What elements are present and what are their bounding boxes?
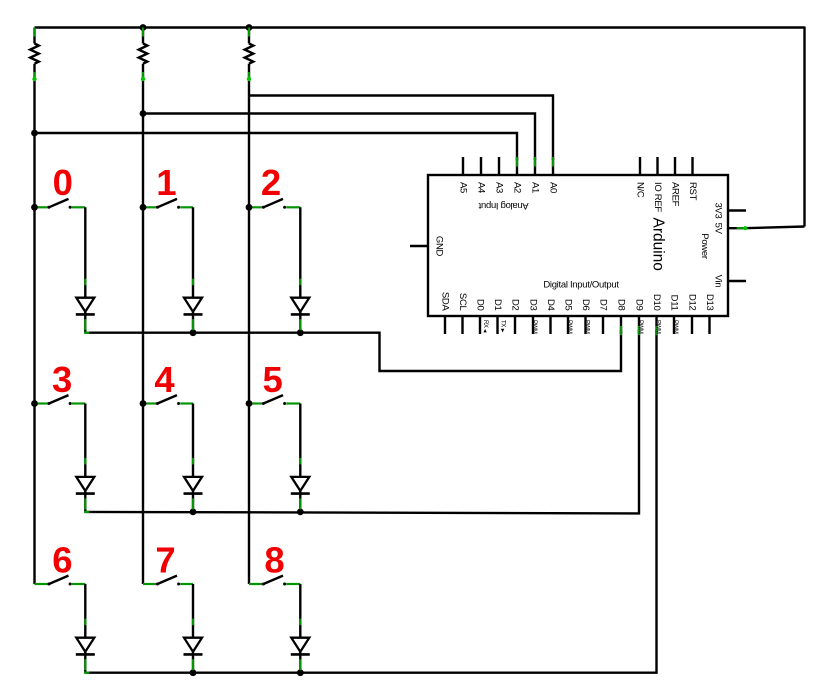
wire column 3 upper xyxy=(248,28,250,44)
pin D11 (bottom) xyxy=(669,295,680,334)
junction row1 col2 xyxy=(190,509,197,516)
pin SCL (bottom) xyxy=(457,293,468,334)
junction col2/A1 wire xyxy=(140,110,147,117)
wire top 5V bus xyxy=(35,27,805,231)
pin A2 (top) xyxy=(512,157,523,193)
wire col1 to pin A2 xyxy=(35,133,518,160)
svg-text:D1: D1 xyxy=(492,299,503,311)
svg-text:PWM: PWM xyxy=(637,320,643,334)
svg-text:D10: D10 xyxy=(651,294,662,311)
svg-text:AREF: AREF xyxy=(670,182,681,207)
diode D6 xyxy=(291,477,310,512)
svg-text:3: 3 xyxy=(52,359,72,400)
wire switch S7 to diode xyxy=(192,584,194,638)
switch S1 (button 1) xyxy=(143,199,193,209)
svg-text:RX: RX xyxy=(482,320,488,328)
Arduino U1 body xyxy=(428,175,728,316)
svg-text:D9: D9 xyxy=(634,299,645,311)
pin IO REF (top) xyxy=(652,157,663,212)
pin D13 (bottom) xyxy=(704,294,715,334)
svg-text:TX: TX xyxy=(500,320,506,327)
label button number 6 xyxy=(52,540,72,581)
wire switch S0 to diode xyxy=(84,207,86,297)
svg-text:RST: RST xyxy=(687,182,698,201)
wire switch S6 to diode xyxy=(84,584,86,638)
pin A1 (top) xyxy=(530,157,541,193)
wire column 2 upper xyxy=(142,28,144,44)
wire row0 bus to pin D8 xyxy=(85,330,621,371)
svg-text:0: 0 xyxy=(53,162,73,203)
switch S8 (button 8) xyxy=(249,576,300,586)
wire column 1 lower xyxy=(32,64,36,584)
svg-text:4: 4 xyxy=(154,359,175,400)
label button number 2 xyxy=(261,162,281,203)
svg-text:SDA: SDA xyxy=(440,292,451,312)
switch S7 (button 7) xyxy=(143,576,193,586)
label Arduino xyxy=(650,218,667,271)
pin D5 (bottom) xyxy=(563,299,574,334)
svg-text:Vin: Vin xyxy=(712,275,723,288)
wire column 1 upper xyxy=(33,28,35,44)
label button number 8 xyxy=(264,540,284,581)
pin GND (left) xyxy=(410,236,445,257)
svg-text:A5: A5 xyxy=(458,182,469,193)
svg-text:Analog Input: Analog Input xyxy=(478,200,528,211)
resistor R1 xyxy=(30,44,39,64)
svg-text:A1: A1 xyxy=(530,182,541,193)
wire col3 to pin A0 xyxy=(249,96,553,161)
pin AREF (top) xyxy=(670,157,681,207)
wire switch S4 to diode xyxy=(192,404,194,477)
svg-text:A2: A2 xyxy=(512,182,523,193)
junction col1/A2 wire xyxy=(31,130,38,137)
pin 5V (right) xyxy=(712,223,723,235)
junction column 2 row 1 xyxy=(140,400,147,407)
diode D8 xyxy=(184,638,203,673)
svg-text:2: 2 xyxy=(261,162,281,203)
switch S2 (button 2) xyxy=(249,199,300,209)
wire switch S8 to diode xyxy=(299,584,301,638)
svg-text:D12: D12 xyxy=(687,294,698,311)
svg-text:7: 7 xyxy=(155,540,175,581)
svg-text:D0: D0 xyxy=(475,299,486,311)
label button number 3 xyxy=(52,359,72,400)
svg-text:A0: A0 xyxy=(548,182,559,193)
svg-text:D6: D6 xyxy=(580,299,591,311)
wire row1 bus to pin D9 xyxy=(85,330,639,513)
label button number 5 xyxy=(263,359,283,400)
wire switch S3 to diode xyxy=(84,404,86,477)
pin D9 (bottom) xyxy=(634,299,645,335)
junction column 1 row 0 xyxy=(31,204,38,211)
wire switch S1 to diode xyxy=(192,207,194,297)
wire switch S2 to diode xyxy=(299,207,301,297)
svg-text:A4: A4 xyxy=(476,182,487,193)
diode D3 xyxy=(291,298,310,333)
pin D12 (bottom) xyxy=(687,294,698,334)
junction row0 col2 xyxy=(190,329,197,336)
pin SDA (bottom) xyxy=(440,292,451,334)
wire row2 bus to pin D10 xyxy=(85,330,656,673)
label button number 4 xyxy=(154,359,175,400)
junction column 3 row 0 xyxy=(246,204,253,211)
svg-text:N/C: N/C xyxy=(635,182,646,198)
pin A4 (top) xyxy=(476,157,487,193)
label button number 0 xyxy=(53,162,73,203)
resistor R3 xyxy=(245,44,254,64)
pin D7 (bottom) xyxy=(598,299,609,334)
svg-text:D4: D4 xyxy=(545,299,556,311)
svg-text:D8: D8 xyxy=(616,299,627,311)
svg-text:Power: Power xyxy=(699,233,710,259)
diode D1 xyxy=(76,298,95,334)
pin D0 (bottom) xyxy=(475,299,489,334)
pin D10 (bottom) xyxy=(651,294,662,335)
diode D9 xyxy=(291,638,310,673)
svg-text:PWM: PWM xyxy=(655,320,661,334)
svg-text:Arduino: Arduino xyxy=(650,218,667,271)
svg-text:D2: D2 xyxy=(510,299,521,311)
svg-text:Digital Input/Output: Digital Input/Output xyxy=(543,279,619,290)
label button number 7 xyxy=(155,540,175,581)
svg-text:SCL: SCL xyxy=(457,293,468,311)
pin D2 (bottom) xyxy=(510,299,521,334)
pin A0 (top) xyxy=(548,157,559,193)
junction top bus col2 xyxy=(140,24,147,31)
pin A3 (top) xyxy=(494,157,505,193)
label Digital Input/Output xyxy=(543,279,619,290)
svg-text:PWM: PWM xyxy=(531,320,537,334)
pin D4 (bottom) xyxy=(545,299,556,334)
svg-text:PWM: PWM xyxy=(672,320,678,334)
svg-text:3V3: 3V3 xyxy=(712,202,723,218)
pin A5 (top) xyxy=(458,157,469,193)
wire column 3 lower xyxy=(247,64,251,584)
diode D7 xyxy=(76,638,95,674)
switch S6 (button 6) xyxy=(35,576,86,586)
svg-text:A3: A3 xyxy=(494,182,505,193)
svg-text:1: 1 xyxy=(156,162,176,203)
junction column 3 row 1 xyxy=(246,400,253,407)
svg-text:GND: GND xyxy=(434,236,445,257)
junction top bus col3 xyxy=(246,24,253,31)
svg-text:D7: D7 xyxy=(598,299,609,311)
pin RST (top) xyxy=(687,157,698,201)
svg-text:8: 8 xyxy=(264,540,284,581)
svg-text:D13: D13 xyxy=(704,294,715,311)
diode D2 xyxy=(184,298,203,333)
svg-text:IO REF: IO REF xyxy=(652,182,663,212)
junction row2 col2 xyxy=(190,669,197,676)
wire switch S5 to diode xyxy=(299,404,301,477)
diode D4 xyxy=(76,477,95,513)
switch S5 (button 5) xyxy=(249,395,300,405)
pin N/C (top) xyxy=(635,157,646,198)
pin D3 (bottom) xyxy=(528,299,539,334)
switch S4 (button 4) xyxy=(143,395,193,405)
junction row1 col3 xyxy=(297,509,304,516)
svg-text:D3: D3 xyxy=(528,299,539,311)
pin D8 (bottom) xyxy=(616,299,627,335)
junction row2 col3 xyxy=(297,669,304,676)
pin 3V3 (right) xyxy=(712,202,746,218)
pin Vin (right) xyxy=(712,275,746,288)
label Analog Input (rotated 180) xyxy=(478,200,528,211)
pin D6 (bottom) xyxy=(580,299,591,334)
svg-text:D5: D5 xyxy=(563,299,574,311)
label button number 1 xyxy=(156,162,176,203)
svg-text:5: 5 xyxy=(263,359,283,400)
switch S3 (button 3) xyxy=(35,395,86,405)
label Power xyxy=(699,233,710,259)
junction column 2 row 0 xyxy=(140,204,147,211)
wire column 2 lower xyxy=(141,64,145,584)
svg-text:D11: D11 xyxy=(669,295,680,311)
svg-text:6: 6 xyxy=(52,540,72,581)
wire col2 to pin A1 xyxy=(143,114,535,161)
resistor R2 xyxy=(139,44,148,64)
junction row0 col3 xyxy=(297,329,304,336)
junction column 1 row 1 xyxy=(31,400,38,407)
pin D1 (bottom) xyxy=(492,299,506,334)
svg-text:PWM: PWM xyxy=(566,320,572,334)
diode D5 xyxy=(184,477,203,512)
switch S0 (button 0) xyxy=(35,199,86,209)
svg-text:PWM: PWM xyxy=(584,320,590,334)
svg-text:5V: 5V xyxy=(712,223,723,235)
